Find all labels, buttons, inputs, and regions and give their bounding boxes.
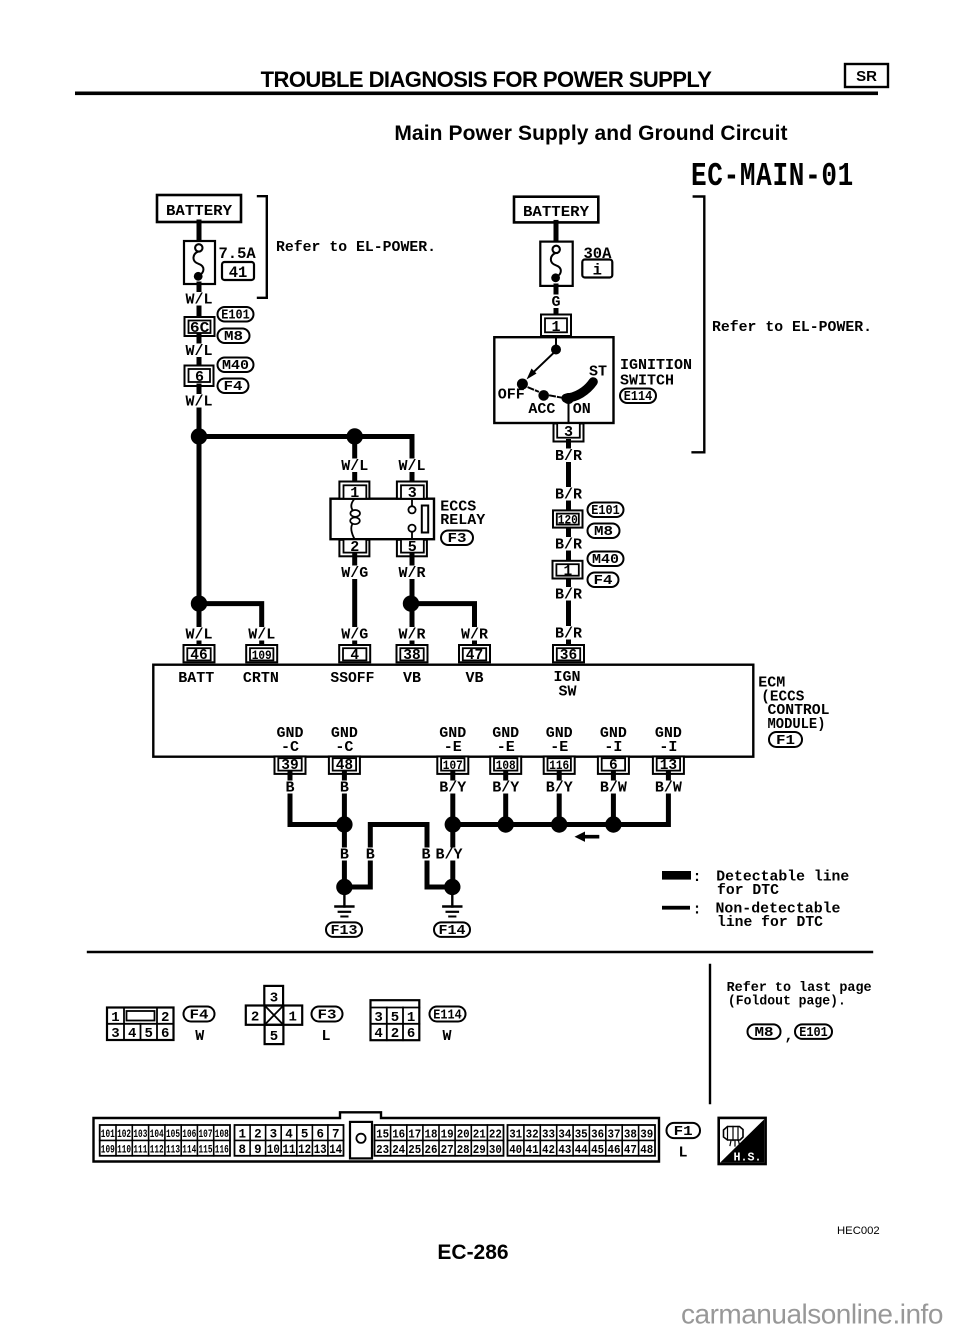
svg-text:4: 4 — [128, 1026, 136, 1042]
svg-text:10: 10 — [267, 1143, 280, 1157]
connector code oval F1 (ECM) — [769, 732, 802, 749]
svg-text:ST: ST — [589, 364, 607, 381]
svg-text:7.5A: 7.5A — [219, 245, 257, 263]
svg-text:40: 40 — [509, 1143, 522, 1157]
svg-text:EC-286: EC-286 — [437, 1241, 508, 1264]
relay pin 5 — [397, 539, 427, 557]
svg-text:101: 101 — [101, 1129, 115, 1141]
F1 view pin grid 31-48 — [508, 1125, 656, 1157]
connector code oval F1 (view) — [667, 1123, 701, 1140]
connector code oval E114 (view) — [430, 1007, 466, 1024]
svg-text:32: 32 — [526, 1127, 539, 1141]
svg-text:SWITCH: SWITCH — [620, 373, 674, 390]
svg-text:line for DTC: line for DTC — [717, 914, 823, 931]
ground symbol F13 — [336, 887, 354, 917]
F1 view pin grid 1-14 — [235, 1125, 344, 1157]
svg-text:38: 38 — [624, 1127, 637, 1141]
wire fuse 30A to ignition connector 1, G — [547, 286, 565, 315]
ECM ground pin names GND-C GND-C GND-E GND-E GND-E GND-I GND-I — [277, 725, 682, 756]
svg-text:E101: E101 — [591, 504, 620, 519]
svg-text:B/Y: B/Y — [435, 847, 462, 864]
svg-text:F1: F1 — [674, 1125, 693, 1140]
svg-text:3: 3 — [374, 1010, 382, 1026]
svg-text:SR: SR — [856, 68, 877, 85]
relay pin 2 — [339, 539, 369, 557]
svg-text:19: 19 — [441, 1127, 454, 1141]
svg-text:3: 3 — [270, 1127, 278, 1141]
connector code oval F13 — [326, 922, 362, 939]
F1 view pin grid 15-30 — [375, 1125, 504, 1157]
svg-text:3: 3 — [408, 485, 417, 502]
svg-text:M40: M40 — [222, 359, 249, 374]
svg-text:W/L: W/L — [185, 292, 212, 309]
connector 120 — [553, 510, 583, 527]
svg-text:W: W — [195, 1028, 204, 1045]
svg-text:116: 116 — [215, 1144, 229, 1156]
ECM pin 13 — [653, 756, 684, 774]
bracket (right refer) — [693, 197, 705, 453]
svg-text:ON: ON — [573, 401, 591, 418]
connector code oval F3 (relay) — [441, 531, 473, 548]
legend: detectable line swatch — [662, 869, 849, 900]
svg-text:6: 6 — [161, 1026, 169, 1042]
svg-text:TROUBLE DIAGNOSIS FOR POWER SU: TROUBLE DIAGNOSIS FOR POWER SUPPLY — [261, 67, 713, 92]
legend: non-detectable line swatch — [662, 901, 841, 932]
svg-text:B/R: B/R — [555, 626, 582, 643]
svg-text:M40: M40 — [592, 553, 619, 568]
value label 7.5A — [219, 245, 257, 263]
node D junction — [403, 595, 419, 611]
svg-text:W/L: W/L — [398, 458, 425, 475]
svg-text:113: 113 — [166, 1144, 180, 1156]
svg-text:H.S.: H.S. — [734, 1151, 762, 1165]
svg-text:105: 105 — [166, 1129, 180, 1141]
wire ECM 116 to ground bus, B/Y — [545, 774, 574, 825]
wire node D branch to ECM 47, W/R — [411, 604, 491, 646]
ignition switch box — [494, 337, 613, 423]
svg-text:115: 115 — [199, 1144, 213, 1156]
svg-text:2: 2 — [391, 1026, 399, 1042]
svg-text:F4: F4 — [190, 1009, 209, 1024]
svg-text:44: 44 — [575, 1143, 588, 1157]
svg-text:W/L: W/L — [185, 394, 212, 411]
svg-text:25: 25 — [408, 1143, 421, 1157]
relay contact (pin3-pin5) — [408, 499, 428, 540]
svg-text:1: 1 — [111, 1010, 119, 1026]
svg-text:9: 9 — [254, 1143, 262, 1157]
svg-text:W/G: W/G — [341, 627, 368, 644]
svg-text:F3: F3 — [448, 532, 467, 547]
svg-text:B/W: B/W — [655, 780, 682, 797]
svg-text:27: 27 — [441, 1143, 454, 1157]
svg-text:W/R: W/R — [398, 565, 425, 582]
connector code oval E101 (left) — [218, 307, 254, 324]
ECM pin 36 — [553, 645, 584, 664]
svg-text:Refer to EL-POWER.: Refer to EL-POWER. — [712, 319, 872, 336]
svg-text:16: 16 — [392, 1127, 405, 1141]
connector 1 (B/R chain) — [553, 561, 583, 580]
title underline rule — [75, 92, 878, 96]
svg-text:14: 14 — [329, 1143, 342, 1157]
connector code oval M8 (note) — [748, 1024, 781, 1041]
svg-text:104: 104 — [150, 1129, 164, 1141]
wire node B to relay pin1, W/L — [339, 437, 371, 482]
relay coil (pin1-pin2) — [350, 499, 360, 540]
svg-text:20: 20 — [457, 1127, 470, 1141]
node at 116 on ground bus — [551, 816, 567, 832]
svg-text:F1: F1 — [776, 734, 795, 749]
svg-text:28: 28 — [457, 1143, 470, 1157]
svg-text:26: 26 — [425, 1143, 438, 1157]
svg-text:108: 108 — [496, 758, 516, 773]
connector 6 — [185, 366, 214, 387]
color label L (F1) — [678, 1145, 687, 1162]
wire relay pin5 to node D, W/R — [396, 556, 428, 604]
svg-text:1: 1 — [551, 319, 560, 336]
svg-text:ACC: ACC — [528, 401, 555, 418]
svg-text:36: 36 — [560, 648, 577, 664]
svg-text:4: 4 — [285, 1127, 293, 1141]
svg-text:W/L: W/L — [341, 458, 368, 475]
node B junction — [347, 428, 363, 444]
svg-text:W/R: W/R — [461, 627, 488, 644]
node at 107 on ground bus — [445, 816, 461, 832]
svg-text:38: 38 — [403, 648, 420, 664]
svg-text:31: 31 — [509, 1127, 522, 1141]
svg-text:F4: F4 — [594, 574, 613, 589]
svg-text:F4: F4 — [224, 380, 243, 395]
svg-text:W/L: W/L — [185, 627, 212, 644]
connector code oval E101 (B/R) — [588, 503, 624, 520]
svg-text:2: 2 — [254, 1127, 262, 1141]
svg-text:BATTERY: BATTERY — [523, 204, 589, 221]
svg-text:109: 109 — [252, 648, 272, 663]
svg-text:103: 103 — [133, 1129, 147, 1141]
svg-text:-E: -E — [550, 739, 568, 756]
wire ECM 108 to ground bus, B/Y — [491, 774, 520, 825]
wire battery B2 to fuse 30A — [554, 222, 559, 242]
connector view E114 grid — [371, 1000, 420, 1042]
svg-text:21: 21 — [473, 1127, 486, 1141]
label W/L on pin3 drop — [396, 458, 428, 475]
connector 3 (ignition switch bottom) — [554, 423, 584, 441]
svg-text:F3: F3 — [318, 1009, 337, 1024]
svg-text:29: 29 — [473, 1143, 486, 1157]
svg-text:2: 2 — [251, 1010, 259, 1026]
fuse 7.5A (left) — [184, 241, 215, 284]
svg-text:-C: -C — [335, 739, 353, 756]
ECM pin 48 — [329, 756, 360, 774]
svg-text:3: 3 — [564, 424, 573, 441]
svg-text:W: W — [442, 1028, 451, 1045]
wire ECM 48 to ground node F13, B — [335, 774, 353, 887]
wire bus node A to relay pin3 drop — [199, 437, 412, 482]
wire ECM 39 to ground bus, B — [281, 774, 344, 825]
svg-text:4: 4 — [374, 1026, 382, 1042]
svg-text::: : — [693, 902, 702, 919]
svg-text:E114: E114 — [624, 390, 653, 405]
connector code oval M8 (left) — [218, 329, 250, 346]
connector code oval M40 (B/R) — [588, 552, 624, 569]
connector code oval M40 (left) — [218, 358, 254, 375]
F1 view pin grid 101-116 — [100, 1125, 230, 1156]
wire node C branch to ECM 109, W/L — [199, 604, 278, 646]
svg-text:B/R: B/R — [555, 537, 582, 554]
ECM pin 46 — [184, 645, 215, 664]
wire battery B1 to fuse 7.5A — [197, 222, 202, 242]
svg-text:30: 30 — [489, 1143, 502, 1157]
svg-text:5: 5 — [391, 1010, 399, 1026]
ground bus wire 107 to 13 — [453, 774, 669, 825]
relay pin 3 — [397, 482, 427, 503]
svg-text:37: 37 — [608, 1127, 621, 1141]
svg-text:3: 3 — [270, 991, 278, 1007]
svg-text:-E: -E — [497, 739, 515, 756]
connector code oval F3 (view) — [312, 1007, 343, 1024]
ground node F14 — [444, 879, 460, 895]
ECM pin 109 — [246, 645, 277, 663]
svg-text:B/Y: B/Y — [492, 780, 519, 797]
connector code oval F4 (left) — [218, 379, 249, 396]
svg-text:RELAY: RELAY — [440, 512, 485, 529]
connector view F3 cross — [246, 986, 302, 1045]
wire ECM 107 to ground node F14, B/Y — [435, 774, 468, 887]
connector code oval M8 (B/R) — [588, 524, 620, 541]
label B/W on wire 13 — [654, 780, 683, 797]
wire node A down to node C — [197, 437, 202, 604]
svg-text:W/R: W/R — [398, 627, 425, 644]
svg-text:12: 12 — [298, 1143, 311, 1157]
relay pin 1 — [339, 482, 369, 503]
svg-text:-C: -C — [281, 739, 299, 756]
svg-text:107: 107 — [199, 1129, 213, 1141]
svg-text:5: 5 — [301, 1127, 309, 1141]
svg-text:B/W: B/W — [600, 780, 627, 797]
label IGNITION SWITCH — [620, 357, 692, 390]
svg-text:47: 47 — [466, 648, 483, 664]
wire fuse41 to connector 6C, W/L — [183, 284, 215, 318]
svg-text:G: G — [551, 294, 560, 311]
note: Refer to EL-POWER. (left) — [276, 239, 436, 256]
connector 1 (ignition switch top) — [541, 315, 571, 337]
color label W (E114) — [442, 1028, 451, 1045]
PAGE HEADER — [75, 64, 888, 196]
svg-text:SSOFF: SSOFF — [330, 670, 374, 687]
svg-text:6: 6 — [195, 369, 204, 386]
svg-text:B/Y: B/Y — [546, 780, 573, 797]
wire relay pin2 to ECM 4, W/G labels — [339, 556, 371, 646]
svg-text:Refer to EL-POWER.: Refer to EL-POWER. — [276, 239, 436, 256]
ECM pin 39 — [275, 756, 306, 774]
svg-text:116: 116 — [549, 758, 569, 773]
svg-text:IGNITION: IGNITION — [620, 357, 692, 374]
color label L (F3) — [321, 1028, 330, 1045]
svg-text:E101: E101 — [221, 309, 250, 324]
svg-text:8: 8 — [239, 1143, 247, 1157]
node at 48 on ground bus — [336, 816, 352, 832]
svg-text:B: B — [421, 847, 430, 864]
label ECCS RELAY — [440, 499, 485, 530]
connector view F4 grid — [107, 1008, 174, 1043]
node C junction — [191, 595, 207, 611]
svg-text:B/R: B/R — [555, 487, 582, 504]
svg-text:120: 120 — [558, 513, 578, 528]
connector code oval F4 (B/R) — [588, 573, 619, 590]
svg-text:108: 108 — [215, 1129, 229, 1141]
svg-text:46: 46 — [608, 1143, 621, 1157]
svg-text:-I: -I — [659, 739, 677, 756]
ECM pin 108 — [490, 756, 521, 774]
fuse letter box i — [582, 260, 612, 280]
svg-text:-I: -I — [604, 739, 622, 756]
note: Refer to last page (Foldout page). — [727, 980, 872, 1010]
svg-text:110: 110 — [117, 1144, 131, 1156]
svg-text:for DTC: for DTC — [717, 882, 779, 899]
svg-text:5: 5 — [144, 1026, 152, 1042]
connector code oval F4 (view) — [184, 1007, 215, 1024]
svg-text:1: 1 — [239, 1127, 247, 1141]
wire ignition 3 to ECM 36, B/R chain — [553, 442, 585, 647]
svg-text:W/L: W/L — [248, 627, 275, 644]
svg-text:6: 6 — [316, 1127, 324, 1141]
svg-text:5: 5 — [270, 1029, 278, 1045]
ECM pin 107 — [437, 756, 468, 774]
svg-text:MODULE): MODULE) — [768, 716, 826, 733]
ECCS relay body — [331, 499, 435, 540]
svg-text:1: 1 — [563, 564, 572, 580]
connector 6C — [185, 317, 215, 337]
svg-text:BATT: BATT — [178, 670, 214, 687]
svg-text:B/R: B/R — [555, 448, 582, 465]
svg-text:Main Power Supply and Ground C: Main Power Supply and Ground Circuit — [394, 122, 787, 145]
svg-text:SW: SW — [558, 684, 576, 701]
svg-text:VB: VB — [465, 670, 483, 687]
F1 view center keyway — [350, 1122, 372, 1159]
svg-text:F13: F13 — [331, 924, 358, 939]
connector code oval E101 (note) — [795, 1024, 832, 1041]
svg-text:112: 112 — [150, 1144, 164, 1156]
ground symbol F14 — [443, 887, 461, 917]
ECM pin 38 — [397, 645, 428, 664]
svg-text:L: L — [678, 1145, 687, 1162]
FOOTER — [437, 1225, 942, 1330]
svg-text:7: 7 — [332, 1127, 340, 1141]
svg-text:E101: E101 — [799, 1026, 828, 1041]
svg-text:BATTERY: BATTERY — [166, 203, 232, 220]
H.S. mark — [719, 1118, 766, 1165]
svg-text:M8: M8 — [594, 525, 613, 540]
svg-text:42: 42 — [542, 1143, 555, 1157]
svg-text:EC-MAIN-01: EC-MAIN-01 — [691, 158, 854, 196]
connector code oval E114 (ignition) — [620, 389, 656, 406]
svg-text:6: 6 — [407, 1026, 415, 1042]
wire connector 6 to node A, W/L — [183, 386, 215, 437]
ground node F13 — [336, 879, 352, 895]
node at 6 on ground bus — [605, 816, 621, 832]
svg-text:15: 15 — [376, 1127, 389, 1141]
svg-text:24: 24 — [392, 1143, 405, 1157]
ECM box — [153, 665, 753, 757]
svg-text:41: 41 — [229, 264, 248, 282]
svg-text:111: 111 — [133, 1144, 147, 1156]
svg-text:43: 43 — [558, 1143, 571, 1157]
wire 6C to connector 6, W/L — [183, 336, 215, 366]
svg-text:VB: VB — [403, 670, 421, 687]
svg-text:B: B — [340, 847, 349, 864]
fuse 30A (right) — [540, 242, 572, 286]
svg-text:B: B — [340, 780, 349, 797]
label ECM (ECCS CONTROL MODULE) — [758, 675, 829, 734]
svg-text:107: 107 — [443, 758, 463, 773]
svg-text:46: 46 — [190, 648, 207, 664]
svg-text:17: 17 — [408, 1127, 421, 1141]
svg-text:B/R: B/R — [555, 587, 582, 604]
svg-text:23: 23 — [376, 1143, 389, 1157]
svg-text:3: 3 — [111, 1026, 119, 1042]
svg-text:carmanualsonline.info: carmanualsonline.info — [681, 1299, 943, 1330]
wire node C to ECM 46, W/L — [183, 604, 215, 646]
svg-text:OFF: OFF — [498, 386, 525, 403]
svg-text:1: 1 — [288, 1010, 296, 1026]
wire node D to ECM 38, W/R — [396, 604, 428, 646]
svg-text:CRTN: CRTN — [243, 670, 279, 687]
svg-text:33: 33 — [542, 1127, 555, 1141]
ECM pin 47 — [459, 645, 490, 664]
bracket (left refer) — [258, 196, 267, 298]
svg-text:35: 35 — [575, 1127, 588, 1141]
jumper wire F13 node to F14 node, B / B — [344, 825, 452, 888]
divider vertical line — [709, 965, 711, 1103]
section tag box SR — [845, 64, 888, 87]
separator rule — [88, 951, 872, 953]
svg-text:M8: M8 — [224, 330, 243, 345]
svg-text:41: 41 — [526, 1143, 539, 1157]
svg-text:B: B — [285, 780, 294, 797]
ECM pin 6 — [598, 756, 629, 774]
svg-text:2: 2 — [161, 1010, 169, 1026]
svg-text:5: 5 — [408, 539, 417, 556]
node A junction — [191, 428, 207, 444]
svg-text:22: 22 — [489, 1127, 502, 1141]
arrow direction marker — [575, 832, 600, 842]
svg-text:M8: M8 — [755, 1026, 774, 1041]
svg-text::: : — [693, 869, 702, 886]
svg-text:39: 39 — [640, 1127, 653, 1141]
svg-text:102: 102 — [117, 1129, 131, 1141]
svg-text:45: 45 — [591, 1143, 604, 1157]
svg-text:F14: F14 — [439, 924, 466, 939]
svg-text:4: 4 — [350, 648, 359, 664]
battery B1 (left) — [157, 195, 241, 222]
svg-text:B: B — [366, 847, 375, 864]
svg-text:48: 48 — [640, 1143, 653, 1157]
svg-text:47: 47 — [624, 1143, 637, 1157]
svg-text:106: 106 — [182, 1129, 196, 1141]
svg-text:18: 18 — [425, 1127, 438, 1141]
svg-text:-E: -E — [444, 739, 462, 756]
comma between ovals — [785, 1028, 794, 1045]
svg-text:,: , — [785, 1028, 794, 1045]
svg-text:L: L — [321, 1028, 330, 1045]
svg-text:W/G: W/G — [341, 565, 368, 582]
svg-text:11: 11 — [283, 1143, 296, 1157]
svg-text:B/Y: B/Y — [439, 780, 466, 797]
fuse number box 41 — [222, 262, 254, 282]
wire ECM 6 to ground bus, B/W — [599, 774, 628, 825]
svg-text:36: 36 — [591, 1127, 604, 1141]
svg-text:2: 2 — [350, 539, 359, 556]
svg-text:(Foldout page).: (Foldout page). — [728, 994, 846, 1010]
